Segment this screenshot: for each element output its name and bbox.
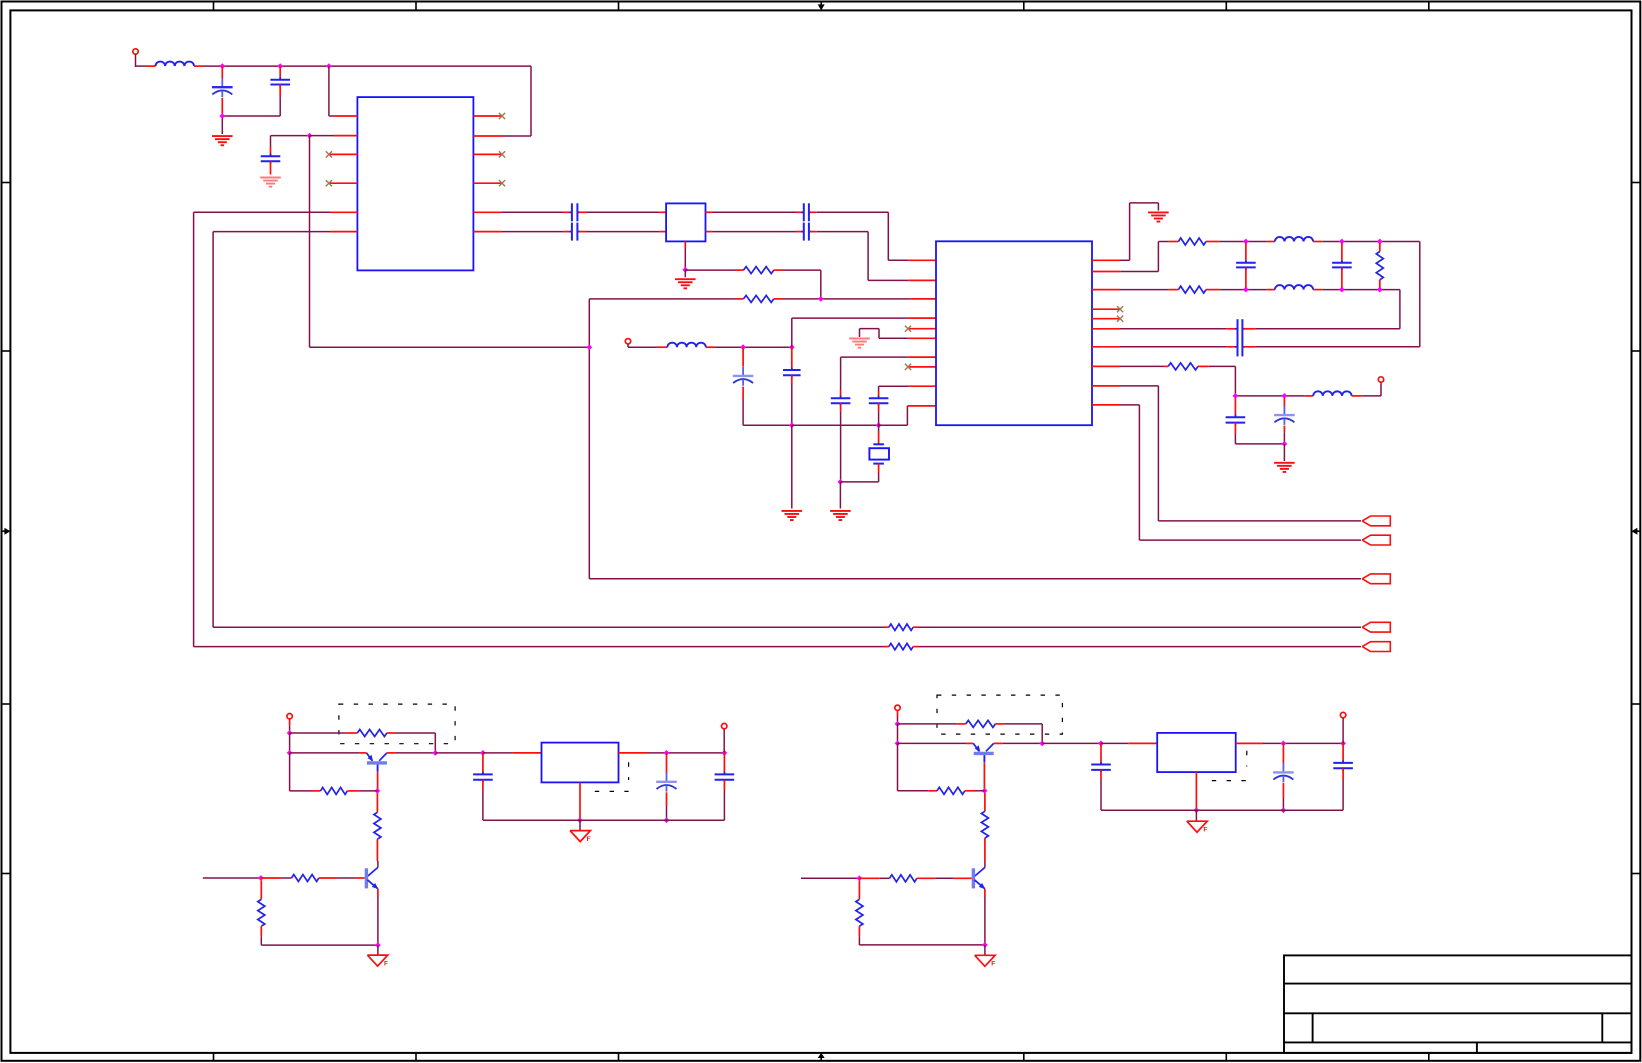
base wire left 2 [801, 877, 859, 879]
junction C9 top [789, 344, 795, 350]
wire gnd stub 2 [984, 945, 986, 955]
svg-text:F: F [1203, 826, 1207, 833]
svg-text:F: F [991, 961, 995, 968]
capacitor C19 [1091, 743, 1111, 810]
resistor R6 [1168, 363, 1198, 370]
resistor R10 row [290, 753, 321, 791]
resistor R19 [856, 881, 863, 945]
ground G7 [1148, 211, 1169, 213]
junction pin2 node [307, 133, 313, 139]
U2 output bottom wire [706, 231, 803, 233]
connector J3 [1378, 377, 1383, 382]
junction R14-Q3 [1039, 741, 1045, 747]
junction C16 top [480, 750, 486, 756]
junction C17 bottom [664, 817, 670, 823]
wire net3 to flag [589, 578, 1361, 580]
U3 right pin1 ground wire [1092, 203, 1158, 260]
resistor R9 row [290, 732, 358, 734]
junction rowB-C12 [1243, 287, 1249, 293]
wire base row [290, 752, 367, 754]
U3 right pin8 wire [1092, 365, 1168, 367]
wire base stub [337, 877, 365, 879]
capacitor C1 (polarized) [212, 66, 233, 113]
title block [1284, 955, 1632, 1053]
capacitor C18 [715, 753, 735, 820]
resistor R12 [292, 875, 319, 882]
wire emitter down [377, 889, 379, 945]
wire pin2 vertical [309, 136, 311, 348]
dashed box D1 [339, 704, 455, 744]
resistor R18 [890, 875, 917, 882]
transistor Q3 [973, 743, 993, 762]
crystal Y1 [840, 425, 889, 482]
wire R18 right [917, 877, 935, 879]
ground G3 [675, 278, 696, 280]
wire node to reg 2 [1042, 742, 1101, 744]
wire reg input [483, 752, 542, 754]
transistor Q1 [367, 753, 387, 772]
wire net B [194, 212, 889, 646]
junction crystal gnd [838, 479, 844, 485]
capacitor C5 series bottom [563, 223, 666, 241]
wire Q1 base down [377, 772, 379, 791]
wire L2 to C8 node [706, 346, 792, 348]
junction J5 node [722, 750, 728, 756]
inductor L3 [1275, 237, 1313, 242]
junction J7 node [1340, 741, 1346, 747]
junction Q1 base node [375, 788, 381, 794]
U3 pin6 ground wire [860, 329, 937, 339]
junction C11 bottom [876, 422, 882, 428]
wire node to reg [435, 752, 483, 754]
junction C17 top [664, 750, 670, 756]
wire R2 to U3 pin3 [774, 298, 936, 300]
U1 right pin 6 wire [473, 231, 563, 233]
row A wire right [1313, 242, 1420, 347]
capacitor C20 (polarized) [1273, 743, 1294, 810]
ground G5 [830, 510, 851, 512]
resistor R14 row [898, 723, 966, 725]
resistor R9 [357, 730, 387, 737]
resistor R3 [1179, 238, 1207, 245]
wire base stub 2 [935, 877, 972, 879]
wire gnd drop [791, 425, 793, 508]
ground G4 [782, 510, 803, 512]
dashed box D2 fragment [595, 762, 629, 791]
wire bottom node [792, 424, 879, 426]
wire C1/C2 ground node [222, 113, 280, 134]
capacitor C10 [831, 357, 936, 482]
resistor R18 row [859, 877, 889, 879]
wire pin2 to C3 [271, 136, 310, 157]
wire R6 to output node [1198, 366, 1313, 396]
wire R10 right [347, 790, 377, 792]
resistor R16 [937, 787, 965, 794]
wire R8 to flag [913, 646, 1361, 648]
junction out-C14 [1233, 393, 1239, 399]
wire C7 to U3 pin2 [810, 232, 936, 281]
junction C8 top [740, 344, 746, 350]
net flag F5 [1362, 642, 1390, 652]
junction VIN-pin [326, 63, 332, 69]
wire net A [213, 232, 889, 628]
connector J6 [895, 705, 900, 724]
connector J7 [1340, 712, 1345, 743]
row B wire [1206, 289, 1275, 291]
wire J1 to L1 [136, 65, 156, 67]
inductor L1 [156, 62, 195, 67]
inductor L5 [1313, 391, 1351, 396]
long vertical net wire [310, 299, 590, 579]
power ground P4 [1187, 821, 1207, 832]
resistor R17 [981, 793, 988, 861]
connector J2 [625, 339, 630, 348]
U2 output top wire [706, 211, 803, 213]
IC U1 [357, 97, 473, 270]
wire C6 to U3 pin1 [810, 212, 936, 260]
U3 right pin9 wire to flag [1092, 386, 1361, 521]
ground G8 [1274, 462, 1295, 464]
junction Q3 base node [982, 788, 988, 794]
junction VIN-C1 [219, 63, 225, 69]
power ground P2 [570, 831, 590, 842]
wire reg2 input [1101, 742, 1157, 744]
junction emitter gnd 2 [982, 942, 988, 948]
resistor R2 [744, 295, 774, 302]
resistor R12 row [261, 877, 292, 879]
junction Q3 left node [895, 741, 901, 747]
power ground P3 [975, 955, 995, 966]
IC U3 [936, 241, 1092, 425]
resistor R16 row [898, 743, 938, 790]
row A wire [1206, 241, 1275, 243]
svg-text:F: F [384, 960, 388, 967]
U3 right pin6 cap row [1092, 319, 1400, 338]
resistor R1 [744, 267, 774, 274]
regulator VR1 [542, 743, 619, 783]
top rail wire [222, 66, 531, 136]
wire crystal gnd drop [839, 482, 841, 509]
U3 right pin10 wire to flag [1092, 405, 1361, 540]
wire gnd stub [377, 945, 379, 955]
wire L1 to node VIN [194, 65, 222, 67]
U3 right pin4 no-connect [1092, 306, 1123, 312]
wire R14 right [995, 724, 1042, 744]
resistor R11 [374, 793, 381, 861]
junction Q1 left node [287, 750, 293, 756]
junction C15 bottom [1282, 441, 1288, 447]
U1 pin 4 no-connect [326, 180, 358, 186]
base wire left [203, 877, 261, 879]
ground G2 (pale) [260, 177, 281, 179]
svg-text:F: F [587, 836, 591, 843]
net flag F1 [1362, 516, 1390, 526]
wire R12 right [319, 877, 337, 879]
U1 right pin 1 no-connect [473, 113, 505, 119]
dashed box D3 [937, 695, 1062, 734]
resistor R4 [1179, 286, 1207, 293]
ground G6 (pale) [849, 338, 870, 340]
U1 pin 1 wire [329, 66, 358, 116]
resistor R2 row wire [589, 298, 743, 300]
capacitor C15 (polarized) [1274, 398, 1295, 444]
filter U2 [666, 203, 705, 241]
wire node to U3 pin4 [792, 318, 936, 347]
U1 right pin 2 stub [473, 135, 502, 137]
junction rowA-C13 [1339, 239, 1345, 245]
junction rowB-C13 [1339, 287, 1345, 293]
inductor L4 [1275, 285, 1313, 290]
junction out-C15 [1282, 393, 1288, 399]
wire emitter down 2 [984, 889, 986, 945]
resistor R13 [258, 881, 265, 946]
capacitor C6 series [801, 211, 804, 213]
junction rowA-R5 [1377, 239, 1383, 245]
junction VIN-C2 [277, 63, 283, 69]
U1 pin 6 wire [213, 231, 357, 233]
U1 right pin 4 no-connect [473, 180, 505, 186]
regulator VR1 gnd pin [579, 782, 581, 818]
junction base node 2 [857, 875, 863, 881]
U3 pin5 no-connect [905, 326, 936, 332]
wire C3 to ground [270, 161, 272, 174]
U1 pin 5 wire [194, 211, 358, 213]
connector J4 [287, 714, 292, 734]
wire R1 to node [774, 270, 821, 299]
U1 pin 3 no-connect [326, 151, 358, 157]
capacitor C14 [1226, 398, 1285, 444]
capacitor C8 (polarized) [733, 347, 792, 425]
junction rowB-R5 [1377, 287, 1383, 293]
wire bottom rail 1 [483, 819, 725, 821]
capacitor C13 [1332, 243, 1352, 288]
net flag F4 [1362, 622, 1390, 632]
junction R1/R2 [818, 296, 824, 302]
wire R7 to flag [913, 626, 1361, 628]
junction C9 bottom [789, 422, 795, 428]
junction R9-Q1 [432, 750, 438, 756]
wire Q3 emitter right [994, 742, 1042, 744]
wire rail2 gnd stub [1195, 810, 1197, 821]
wire Q3 base down [983, 762, 985, 791]
capacitor C21 [1333, 743, 1353, 810]
wire bottom row 2 [859, 944, 985, 946]
wire R9 right [387, 733, 435, 753]
transistor Q2 [366, 861, 378, 889]
power ground P1 [367, 955, 387, 966]
junction U2 gnd [682, 267, 688, 273]
wire gnd stub [684, 270, 686, 277]
capacitor C4 series top [563, 203, 666, 221]
wire L5 to J3 [1352, 382, 1381, 396]
U3 right pin5 no-connect [1092, 316, 1123, 322]
connector J1 [133, 49, 138, 67]
U1 right pin 3 no-connect [473, 151, 505, 157]
wire node to U3 pin10 [879, 406, 936, 425]
capacitor C7 series [801, 231, 804, 233]
U3 pin8 no-connect [905, 364, 936, 370]
junction J4 node [287, 730, 293, 736]
wire Q1 emitter right [387, 752, 435, 754]
ground G1 [212, 135, 233, 137]
junction C20 bottom [1281, 807, 1287, 813]
U3 right pin3 wire [1092, 289, 1179, 291]
wire J4 down [289, 733, 291, 753]
transistor Q4 [973, 861, 985, 889]
junction C1 bottom [219, 113, 225, 119]
capacitor C16 [473, 753, 493, 820]
inductor L2 [667, 343, 705, 348]
wire bottom rail 2 [1101, 809, 1343, 811]
wire rail gnd stub [579, 820, 581, 830]
regulator VR2 gnd pin [1195, 772, 1197, 808]
net flag F2 [1362, 535, 1390, 545]
resistor R1 row [685, 269, 743, 271]
net flag F3 [1362, 574, 1390, 584]
junction C19 top [1098, 741, 1104, 747]
connector J5 [722, 723, 727, 753]
regulator VR2 [1157, 733, 1236, 772]
junction C20 top [1281, 741, 1287, 747]
capacitor C2 [270, 66, 290, 116]
junction reg gnd [577, 817, 583, 823]
junction rowA-C12 [1243, 239, 1249, 245]
wire bottom row [261, 944, 378, 946]
U2 ground pin [684, 241, 686, 269]
wire R16 right [965, 790, 985, 792]
resistor R10 [321, 787, 348, 794]
resistor R8 [889, 643, 913, 649]
capacitor C17 (polarized) [656, 753, 677, 820]
junction emitter gnd [375, 942, 381, 948]
wire J2 to L2 [628, 346, 667, 348]
U3 right pin2 wire [1092, 242, 1179, 272]
resistor R14 [966, 720, 996, 727]
junction J6 node [895, 721, 901, 727]
capacitor C3 [270, 154, 272, 157]
U1 pin 2 stub [310, 135, 358, 137]
capacitor C11 [869, 386, 936, 425]
U3 right pin7 cap row [1092, 337, 1420, 356]
wire reg output [619, 752, 725, 754]
wire base row 2 [898, 742, 974, 744]
junction base node [258, 875, 264, 881]
resistor R5 [1376, 243, 1383, 288]
resistor R7 [889, 624, 913, 630]
junction reg2 gnd [1194, 807, 1200, 813]
wire J6 down [897, 724, 899, 744]
wire to ground [1283, 444, 1285, 461]
junction mid net [586, 344, 592, 350]
capacitor C9 [783, 347, 801, 425]
dashed box D4 fragment [1212, 751, 1248, 781]
capacitor C12 [1236, 243, 1256, 288]
U1 right pin 5 wire [473, 211, 563, 213]
wire reg2 output [1236, 742, 1343, 744]
row B wire right [1313, 290, 1400, 329]
